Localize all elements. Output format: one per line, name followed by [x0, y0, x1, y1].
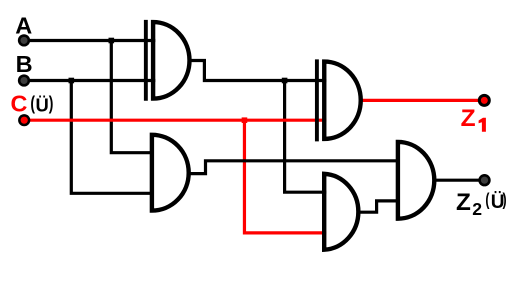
svg-text:Z: Z	[456, 189, 471, 216]
wire U2 output stepping up to U5 top input (drawn over red branch)	[188, 161, 400, 174]
junction on U1 output wire	[282, 78, 288, 84]
wire U3 output to Z1 terminal (red)	[361, 99, 479, 102]
wire A branch down to U2 top input	[111, 41, 154, 153]
terminal dot B	[18, 74, 30, 86]
gate U2 body (AND shape)	[152, 135, 189, 211]
svg-text:A: A	[15, 13, 32, 39]
wire branch down to U4 top input	[285, 81, 327, 193]
svg-text:B: B	[16, 51, 33, 77]
junction on wire A	[109, 38, 115, 44]
wire U1 output stepping down to U3 top input	[189, 61, 326, 81]
svg-text:Ü: Ü	[36, 95, 49, 116]
wire A horizontal	[24, 39, 155, 42]
gate U4 body (AND shape)	[324, 174, 358, 250]
gate U3 input bar	[315, 59, 319, 141]
wire B horizontal	[24, 79, 155, 82]
wire B branch down to U2 bottom input	[71, 81, 154, 194]
terminal dot Z2	[478, 174, 490, 186]
svg-text:2: 2	[472, 199, 482, 219]
svg-text:): )	[503, 190, 507, 210]
wire C horizontal (red) to U3 bottom input	[24, 119, 326, 122]
gate U5 body (AND shape)	[398, 142, 434, 219]
wire C branch down to U4 bottom input (red)	[244, 120, 326, 233]
terminal dot Z1	[478, 94, 491, 107]
junction on wire B	[69, 78, 75, 84]
wire U4 output stepping up to U5 bottom input	[360, 201, 400, 212]
wire U5 output to Z2 terminal	[434, 179, 479, 182]
gate U1 body (AND shape)	[153, 22, 189, 99]
terminal dot C	[18, 114, 30, 126]
junction on wire C (red)	[242, 117, 248, 123]
terminal dot A	[18, 34, 30, 46]
svg-text:(: (	[485, 190, 490, 210]
svg-text:Z: Z	[461, 105, 476, 132]
svg-text:C: C	[11, 91, 28, 117]
gate U1 input bar	[144, 20, 148, 101]
svg-text:): )	[49, 92, 54, 114]
gate U3 body (AND shape)	[324, 62, 360, 139]
